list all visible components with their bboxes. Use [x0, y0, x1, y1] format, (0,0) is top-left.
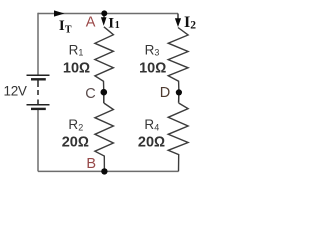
svg-text:12V: 12V	[4, 83, 27, 98]
svg-text:R: R	[69, 42, 79, 57]
svg-text:2: 2	[190, 20, 196, 32]
svg-text:C: C	[85, 86, 95, 102]
svg-text:A: A	[86, 15, 96, 31]
svg-text:20Ω: 20Ω	[62, 134, 89, 150]
svg-text:3: 3	[154, 48, 159, 58]
svg-text:20Ω: 20Ω	[138, 134, 165, 150]
svg-text:10Ω: 10Ω	[63, 60, 90, 76]
svg-text:B: B	[86, 156, 96, 172]
svg-text:4: 4	[154, 122, 159, 132]
svg-text:R: R	[144, 117, 154, 132]
svg-text:10Ω: 10Ω	[139, 60, 166, 76]
svg-text:T: T	[65, 25, 72, 36]
svg-text:1: 1	[115, 20, 120, 31]
svg-text:1: 1	[78, 48, 83, 58]
svg-text:2: 2	[78, 122, 83, 132]
svg-text:R: R	[145, 42, 155, 57]
svg-text:R: R	[68, 117, 78, 132]
svg-text:D: D	[160, 85, 170, 101]
svg-text:I: I	[108, 15, 114, 31]
